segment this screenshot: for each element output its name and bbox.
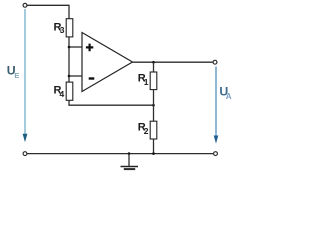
resistor R1 xyxy=(138,72,157,90)
wire + input branch xyxy=(69,46,82,48)
voltage arrow U_E xyxy=(7,9,28,142)
wire bottom rail xyxy=(27,153,214,155)
junction node rail at R2 xyxy=(152,152,155,155)
resistor R4 xyxy=(54,82,73,100)
wire top from input terminal to R3 xyxy=(27,5,69,18)
wire - input branch xyxy=(69,75,82,77)
junction node rail at ground xyxy=(128,152,131,155)
wire output node down into R1 xyxy=(153,62,155,72)
resistor R3 xyxy=(54,19,73,37)
wire R1 bottom to R2 top xyxy=(153,90,155,122)
junction node + input xyxy=(68,46,71,49)
wire R4 bottom to feedback node xyxy=(69,100,154,105)
junction node feedback at R1/R2 xyxy=(152,104,155,107)
wire R2 bottom to ground rail xyxy=(153,139,155,154)
junction node - input xyxy=(68,75,71,78)
terminal bottom-left xyxy=(23,152,27,156)
terminal bottom-right xyxy=(214,152,218,156)
voltage arrow U_A xyxy=(214,67,232,144)
svg-text:E: E xyxy=(14,71,19,80)
wire output to right terminal xyxy=(133,61,214,63)
op-amp U1 xyxy=(82,33,133,92)
ground xyxy=(121,154,139,171)
svg-text:1: 1 xyxy=(144,77,149,87)
svg-text:4: 4 xyxy=(60,89,65,99)
terminal output top-right xyxy=(213,60,217,64)
wire column R3 to R4 with input branches xyxy=(68,37,70,82)
junction node output at R1 xyxy=(152,61,155,64)
svg-text:A: A xyxy=(226,92,232,101)
resistor R2 xyxy=(138,121,157,139)
svg-text:2: 2 xyxy=(144,126,149,136)
svg-text:3: 3 xyxy=(60,25,65,35)
terminal input top-left xyxy=(23,3,27,7)
